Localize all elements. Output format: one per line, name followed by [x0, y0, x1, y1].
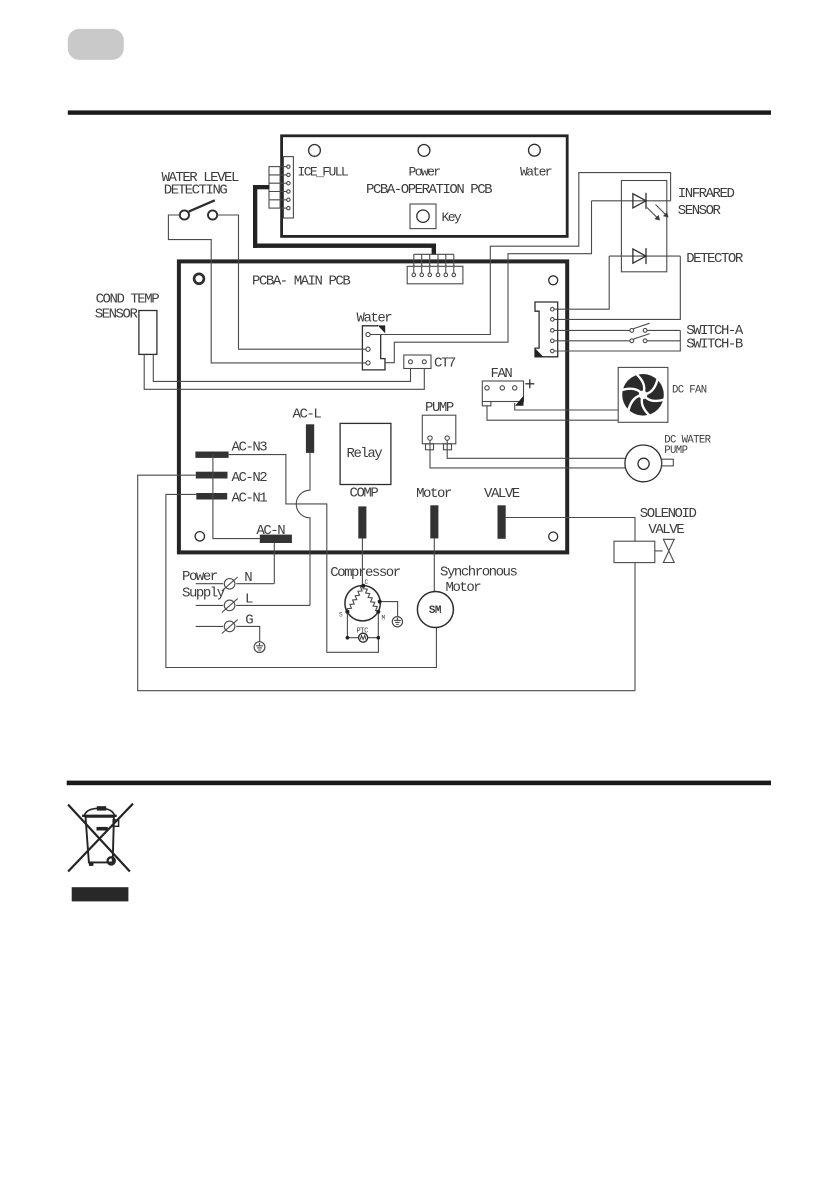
svg-text:G: G	[245, 613, 253, 629]
compressor motor M2	[345, 586, 380, 621]
wire FAN connector to DC fan (upper)	[515, 403, 619, 410]
black redaction bar	[72, 887, 129, 901]
IR emission arrows	[647, 205, 667, 220]
mounting hole bottom-right	[549, 532, 558, 541]
svg-text:VALVE: VALVE	[648, 522, 684, 538]
svg-text:PCBA- MAIN PCB: PCBA- MAIN PCB	[252, 273, 350, 289]
wire FAN connector to DC fan (lower)	[487, 406, 618, 420]
solenoid valve coil box	[614, 541, 655, 562]
svg-text:AC-L: AC-L	[293, 406, 322, 422]
svg-text:PUMP: PUMP	[664, 445, 687, 457]
wire PUMP pin1 to DC water pump	[430, 440, 626, 468]
svg-text:AC-N2: AC-N2	[232, 470, 268, 486]
protective earth symbol at G	[254, 642, 265, 653]
wire J6 pin4 to switch-B	[554, 340, 630, 342]
svg-text:PUMP: PUMP	[425, 400, 454, 416]
connector J5 PUMP	[422, 415, 456, 444]
wire Motor bar to SM	[433, 538, 435, 591]
wire detector cathode to J6 pin2	[554, 256, 680, 319]
svg-text:C: C	[365, 579, 369, 586]
wire VALVE bar to solenoid valve	[506, 518, 635, 542]
wire AC-N1 to synchronous motor return	[166, 494, 437, 667]
svg-text:M: M	[382, 615, 386, 622]
wire S drop to PTC	[347, 614, 358, 638]
wire switch right pole to Water pin2	[217, 215, 366, 349]
connector J2 six-pin header on main board	[407, 266, 463, 284]
svg-text:FAN: FAN	[491, 366, 513, 382]
DC fan housing	[618, 367, 668, 422]
relay K1	[340, 423, 391, 484]
connector CT7	[404, 355, 431, 369]
terminal N	[196, 583, 275, 585]
svg-text:Relay: Relay	[347, 446, 383, 462]
terminal G	[196, 626, 260, 641]
water level switch S1	[180, 210, 189, 219]
svg-text:COMP: COMP	[350, 486, 379, 502]
svg-text:L: L	[245, 592, 253, 608]
wire PUMP pin2 to DC water pump	[447, 440, 625, 458]
svg-text:AC-N3: AC-N3	[232, 440, 268, 456]
connector J1 ICE_FULL header on op board	[283, 157, 293, 218]
terminal bar AC-N2	[196, 472, 228, 479]
svg-text:SENSOR: SENSOR	[678, 203, 722, 219]
bottom section rule	[67, 781, 771, 786]
svg-text:DC FAN: DC FAN	[672, 384, 707, 396]
svg-text:Motor: Motor	[446, 580, 482, 596]
op-board U1 PCBA-OPERATION PCB outline	[282, 136, 568, 237]
svg-text:AC-N1: AC-N1	[232, 490, 268, 506]
wire AC-N bus vertical	[213, 455, 260, 539]
infrared sensor box	[621, 181, 666, 272]
wire solenoid return	[634, 563, 636, 691]
node M	[376, 610, 380, 614]
wire switch left pole to Water pin3	[168, 215, 365, 363]
main board U2 PCBA-MAIN PCB outline	[179, 261, 567, 552]
wire AC-N3 to compressor PTC (with corner hops)	[229, 455, 379, 653]
mounting hole top-left	[194, 274, 204, 284]
wire AC-N2 to outer return loop (solenoid)	[138, 475, 635, 691]
wire CT7 pin2 to sensor	[144, 355, 424, 390]
svg-text:Motor: Motor	[416, 486, 452, 502]
svg-text:INFRARED: INFRARED	[678, 186, 735, 202]
wire CT7 pin1 to sensor	[153, 355, 410, 382]
svg-text:Water: Water	[357, 310, 393, 326]
svg-text:SM: SM	[429, 605, 442, 617]
svg-text:N: N	[244, 570, 252, 586]
key switch box	[410, 204, 436, 229]
winding C-M	[363, 586, 378, 612]
IR LED D1	[592, 200, 671, 202]
wire AC-L to L terminal with crossover hop	[296, 453, 310, 606]
terminal bar VALVE	[498, 505, 506, 539]
terminal bar AC-N3	[195, 452, 228, 458]
svg-text:DETECTOR: DETECTOR	[686, 251, 744, 267]
wire Water pin1 to IR LED cathode (staircase)	[370, 173, 670, 335]
svg-text:Water: Water	[520, 165, 552, 180]
synchronous motor M3	[417, 592, 453, 628]
switch-B S3	[630, 339, 634, 343]
svg-text:PCBA-OPERATION PCB: PCBA-OPERATION PCB	[366, 182, 492, 198]
terminal bar AC-N	[260, 535, 292, 543]
terminal bar COMP	[358, 506, 366, 538]
node PTC left	[346, 636, 350, 640]
svg-text:PTC: PTC	[357, 628, 369, 636]
DC fan rotor	[621, 374, 664, 416]
wire J6 pin5 common return	[554, 330, 680, 351]
LED ICE_FULL	[309, 145, 321, 157]
wire detector anode to J6 pin1	[554, 256, 609, 309]
node PTC right	[377, 636, 381, 640]
connector J6 five-pin on main board right	[535, 302, 558, 357]
node C	[361, 584, 365, 588]
wire J6 pin3 to switch-A	[554, 329, 630, 331]
switch-A S2	[630, 329, 634, 333]
WEEE crossed-out wheelie bin	[68, 804, 133, 872]
connector J4 FAN	[482, 381, 523, 402]
LED Water	[529, 144, 541, 156]
protective earth symbol at compressor	[392, 617, 402, 627]
svg-text:Synchronous: Synchronous	[440, 565, 518, 581]
terminal bar Motor	[430, 505, 438, 538]
wire AC-N bar to N terminal	[273, 543, 275, 584]
svg-text:Power: Power	[409, 165, 441, 180]
connector J1 pins	[287, 165, 290, 210]
cond temp sensor RT1	[139, 311, 157, 355]
node S	[345, 610, 349, 614]
gray page tab	[68, 29, 124, 60]
svg-text:Key: Key	[442, 210, 462, 225]
terminal L	[196, 604, 310, 606]
svg-text:Power: Power	[182, 569, 218, 585]
wire Water pin3 to IR LED anode (staircase)	[385, 201, 592, 363]
svg-text:ICE_FULL: ICE_FULL	[298, 165, 348, 180]
wire compressor case to earth	[381, 602, 397, 617]
mating plug ladder for J1	[269, 167, 287, 209]
svg-text:SOLENOID: SOLENOID	[640, 506, 697, 522]
svg-text:VALVE: VALVE	[484, 486, 520, 502]
node earth tap	[378, 600, 382, 604]
svg-text:CT7: CT7	[434, 356, 456, 372]
svg-text:SWITCH-B: SWITCH-B	[686, 337, 743, 353]
terminal bar AC-L	[306, 424, 314, 453]
valve bowtie symbol	[655, 550, 663, 552]
wire COMP bar to compressor C	[361, 539, 363, 586]
LED Power	[418, 145, 430, 157]
terminal bar AC-N1	[196, 493, 227, 500]
plus polarity mark	[525, 379, 534, 388]
photo detector D2	[609, 255, 680, 257]
DC water pump M1	[625, 445, 662, 482]
svg-text:COND TEMP: COND TEMP	[96, 291, 160, 307]
thick harness wire from J1 to main board connector	[253, 185, 436, 255]
connector J3 Water 3-pin	[362, 326, 385, 370]
mounting hole bottom-left	[195, 532, 204, 541]
wire M drop to PTC	[368, 614, 379, 638]
svg-text:Supply: Supply	[182, 585, 225, 601]
svg-text:S: S	[339, 612, 343, 619]
PTC starter R1	[359, 633, 368, 642]
svg-text:DETECTING: DETECTING	[164, 182, 228, 198]
winding C-S	[347, 586, 363, 612]
svg-text:SENSOR: SENSOR	[95, 306, 139, 322]
mounting hole top-right	[549, 276, 558, 285]
top section rule	[68, 110, 771, 114]
